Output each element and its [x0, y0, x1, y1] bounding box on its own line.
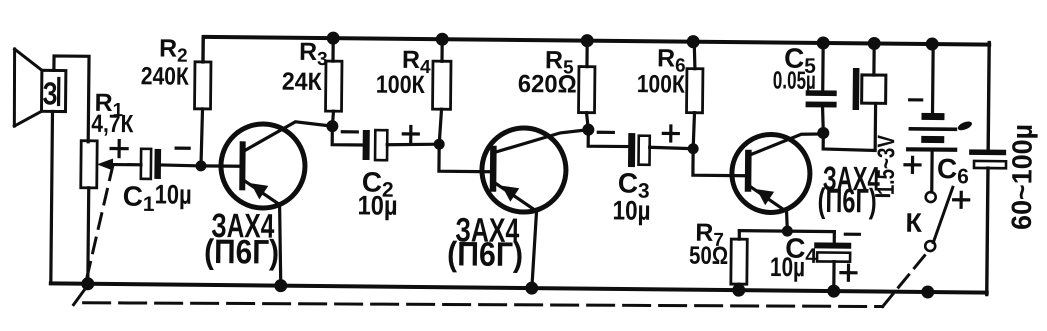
speaker Гр (loudspeaker) [14, 49, 66, 126]
wire right edge vertical (C6 branch) [987, 43, 989, 295]
node C1/R2/T1 base junction [195, 160, 206, 171]
wire C1 to T1 base node [161, 163, 201, 167]
wire bottom ground rail [51, 283, 987, 292]
node R7 bottom on ground rail [732, 284, 745, 297]
plus sign at C2 [403, 126, 418, 141]
capacitor C3 10µ [628, 133, 650, 167]
svg-text:100К: 100К [637, 70, 686, 98]
wire C3 to R6/T3 base node [650, 147, 694, 148]
plus sign at C1 [111, 141, 127, 157]
svg-text:(П6Г): (П6Г) [204, 233, 279, 272]
node T3 emitter junction [782, 226, 793, 237]
node R4 top on rail [436, 33, 449, 46]
svg-text:10µ: 10µ [612, 195, 650, 225]
wire C4 bottom to ground rail [832, 262, 835, 291]
svg-text:10µ: 10µ [770, 252, 805, 282]
capacitor C6 60~100µ [969, 149, 1006, 168]
wire R6 bottom to node [693, 113, 694, 149]
resistor R6 100K [687, 69, 703, 113]
plus sign at C6 [954, 192, 969, 207]
wire R4 bottom to node [439, 109, 441, 144]
wire R7 bottom to ground rail [737, 284, 740, 290]
wire top rail corner to R2 [201, 37, 205, 62]
node R1 bottom on ground rail [81, 277, 94, 290]
svg-text:100К: 100К [376, 71, 426, 99]
wire rail to R4 [440, 39, 443, 61]
node C2/R4/T2 base junction [434, 139, 445, 150]
node switch bottom on ground rail [921, 285, 934, 298]
transistor T3 ЗАХ4 (П6Г) [692, 133, 823, 231]
plus sign at battery [905, 157, 920, 172]
capacitor C1 10µ (electrolytic) [141, 149, 161, 179]
node R3 top on rail [327, 32, 340, 45]
svg-text:10µ: 10µ [155, 179, 192, 209]
transistor T2 ЗАХ4 (П6Г) [438, 127, 589, 289]
wire collector node down to C2 [332, 126, 362, 145]
node R6 top on rail [687, 35, 700, 48]
wire battery to switch [930, 152, 934, 192]
small arrow mark near battery [957, 120, 974, 132]
svg-text:4,7К: 4,7К [91, 110, 134, 138]
minus sign at C3 [598, 131, 613, 134]
svg-text:50Ω: 50Ω [689, 242, 728, 270]
resistor R5 620Ω [579, 67, 595, 113]
wire rail to R6 [694, 42, 695, 69]
minus sign at C4 [845, 233, 859, 236]
wire R3 bottom to T1 collector node [332, 111, 333, 126]
node T2 collector junction [582, 124, 594, 136]
wire rail to battery [931, 44, 935, 113]
svg-text:(П6Г): (П6Г) [817, 182, 876, 221]
svg-text:60~100µ: 60~100µ [1006, 124, 1038, 230]
svg-text:0.05µ: 0.05µ [773, 66, 816, 94]
resistor R7 50Ω [731, 239, 747, 284]
speaker label Зl [42, 75, 58, 111]
dashed mechanical link R1 to switch K [74, 165, 930, 313]
resistor R2 240K [195, 62, 211, 109]
node T1 emitter on ground rail [274, 279, 287, 292]
svg-text:(П6Г): (П6Г) [447, 235, 523, 274]
wire rail to R5 [585, 41, 588, 67]
svg-text:24К: 24К [282, 68, 323, 96]
resistor R1 (potentiometer 4.7K) [81, 141, 97, 188]
transistor T1 ЗАХ4 (П6Г) [200, 121, 333, 287]
plus sign at C3 [663, 126, 678, 141]
wire speaker top to R1 top [53, 56, 89, 142]
minus sign at battery [910, 98, 922, 101]
wire R1 bottom to ground rail [86, 188, 90, 284]
earphone (телефон) symbol [853, 68, 886, 110]
node C3/R6/T3 base junction [688, 143, 699, 154]
wire rail to R3 [331, 38, 334, 61]
wire top supply rail [204, 37, 989, 45]
wire collector node U-link to phone bottom [823, 103, 875, 151]
svg-text:1.5~3V: 1.5~3V [873, 135, 901, 195]
capacitor C4 10µ [814, 242, 851, 261]
node C5 top on rail [817, 36, 830, 49]
wire C5 bottom to collector node [822, 107, 823, 133]
battery 1.5~3V [908, 113, 955, 150]
wire R5 bottom to T2 collector node [586, 113, 588, 130]
node T1 collector junction [326, 120, 338, 132]
svg-text:З: З [42, 75, 57, 111]
wire emitter row to R7 [738, 231, 741, 239]
plus sign at C4 [841, 265, 856, 280]
node T2 emitter on ground rail [525, 282, 538, 295]
switch K [925, 187, 953, 251]
node phone top on rail [868, 37, 881, 50]
svg-text:10µ: 10µ [357, 190, 397, 220]
minus sign at C1 [176, 147, 189, 150]
wire speaker bottom to ground rail [51, 111, 53, 283]
wiper arrow of R1 [97, 158, 141, 170]
svg-text:240К: 240К [141, 62, 190, 90]
svg-text:620Ω: 620Ω [518, 70, 577, 99]
node R5 top on rail [581, 34, 594, 47]
capacitor C2 10µ [363, 130, 388, 160]
wire collector node down to C3 [588, 130, 628, 147]
wire R2 bottom to base node [201, 109, 203, 166]
wire emitter row R7 to C4 [739, 229, 834, 233]
wire C2 to R4/T2 base node [387, 144, 439, 146]
wire rail to C5 [821, 43, 825, 90]
svg-text:К: К [905, 208, 922, 238]
dash after (П6Г) [877, 194, 889, 197]
resistor R3 24K [326, 61, 342, 111]
minus sign at C2 [342, 130, 357, 133]
node C4 bottom on ground rail [827, 285, 840, 298]
capacitor C5 0.05µ [806, 90, 837, 107]
wire rail to phone [872, 43, 876, 75]
resistor R4 100K [433, 61, 451, 109]
wire emitter row to C4 [833, 232, 836, 243]
node battery top on rail [926, 37, 939, 50]
node T3 collector junction [817, 127, 829, 139]
